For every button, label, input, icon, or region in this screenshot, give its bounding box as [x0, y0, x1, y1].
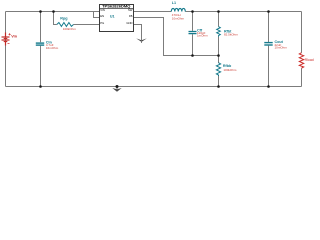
node Cout top — [267, 10, 270, 13]
capacitor Cin — [36, 43, 44, 45]
svg-text:GND: GND — [126, 21, 132, 25]
svg-text:Rpg: Rpg — [60, 16, 67, 20]
junction node dots — [39, 10, 270, 88]
wire Rload branch top — [301, 12, 303, 53]
svg-text:FB: FB — [129, 14, 133, 18]
wire Cin branch — [40, 12, 42, 43]
svg-text:VIN: VIN — [100, 8, 105, 12]
svg-text:Rload: Rload — [305, 58, 314, 62]
wire Rfbb branch — [218, 56, 220, 64]
svg-text:PG: PG — [100, 21, 104, 25]
svg-text:100kOhm: 100kOhm — [63, 27, 77, 31]
node Rfbb bottom — [217, 85, 220, 88]
node FB junction — [217, 54, 220, 57]
wire SW to L1 — [134, 11, 172, 13]
svg-text:10mOhm: 10mOhm — [172, 17, 185, 21]
wire Cout branch — [268, 12, 270, 43]
wire bottom rail — [6, 86, 302, 88]
node Cin bottom — [39, 85, 42, 88]
svg-text:L1: L1 — [172, 1, 176, 5]
wire Rfbt branch — [218, 12, 220, 27]
resistor Rfbt — [217, 27, 221, 37]
wire top rail input — [6, 11, 101, 13]
svg-text:U1: U1 — [110, 15, 115, 19]
wire output rail — [185, 11, 301, 13]
node Cff top — [191, 10, 194, 13]
resistor Rfbb — [216, 63, 220, 76]
ground bottom rail — [112, 87, 121, 92]
resistor Rpg — [57, 23, 74, 27]
inductor L1 — [171, 8, 185, 11]
node gnd tap — [116, 85, 119, 88]
svg-text:10mOhm: 10mOhm — [275, 46, 288, 50]
ground under U1 — [136, 38, 147, 42]
node Cout bottom — [267, 85, 270, 88]
node Rfbt top — [217, 10, 220, 13]
wire FB node — [134, 18, 219, 56]
svg-text:SW: SW — [128, 8, 133, 12]
battery V1 Vin — [2, 33, 11, 46]
node Cin top — [39, 10, 42, 13]
capacitor Cout — [264, 43, 272, 45]
svg-text:EN: EN — [100, 14, 104, 18]
wire Vin left branch — [5, 12, 7, 87]
wire GND pin — [134, 25, 142, 41]
resistor Rload — [299, 53, 303, 68]
wire Cff branch — [192, 12, 194, 31]
node Cff bottom — [191, 54, 194, 57]
svg-text:82.5kOhm: 82.5kOhm — [224, 33, 238, 37]
svg-text:1mOhm: 1mOhm — [197, 33, 208, 37]
svg-text:100kOhm: 100kOhm — [223, 68, 237, 72]
wire Rpg to PG pin — [74, 24, 100, 26]
svg-text:16mOhm: 16mOhm — [46, 46, 59, 50]
wire Rload branch bottom — [301, 68, 303, 86]
wire Rpg tap — [54, 12, 57, 25]
op-amp U1 TPS62826DMQ box — [100, 3, 134, 31]
node Rpg tap — [52, 10, 55, 13]
svg-text:Vin: Vin — [11, 35, 18, 39]
svg-text:TPS62826DMQ: TPS62826DMQ — [102, 3, 130, 8]
wire EN connection — [94, 12, 100, 18]
capacitor Cff — [189, 32, 197, 34]
